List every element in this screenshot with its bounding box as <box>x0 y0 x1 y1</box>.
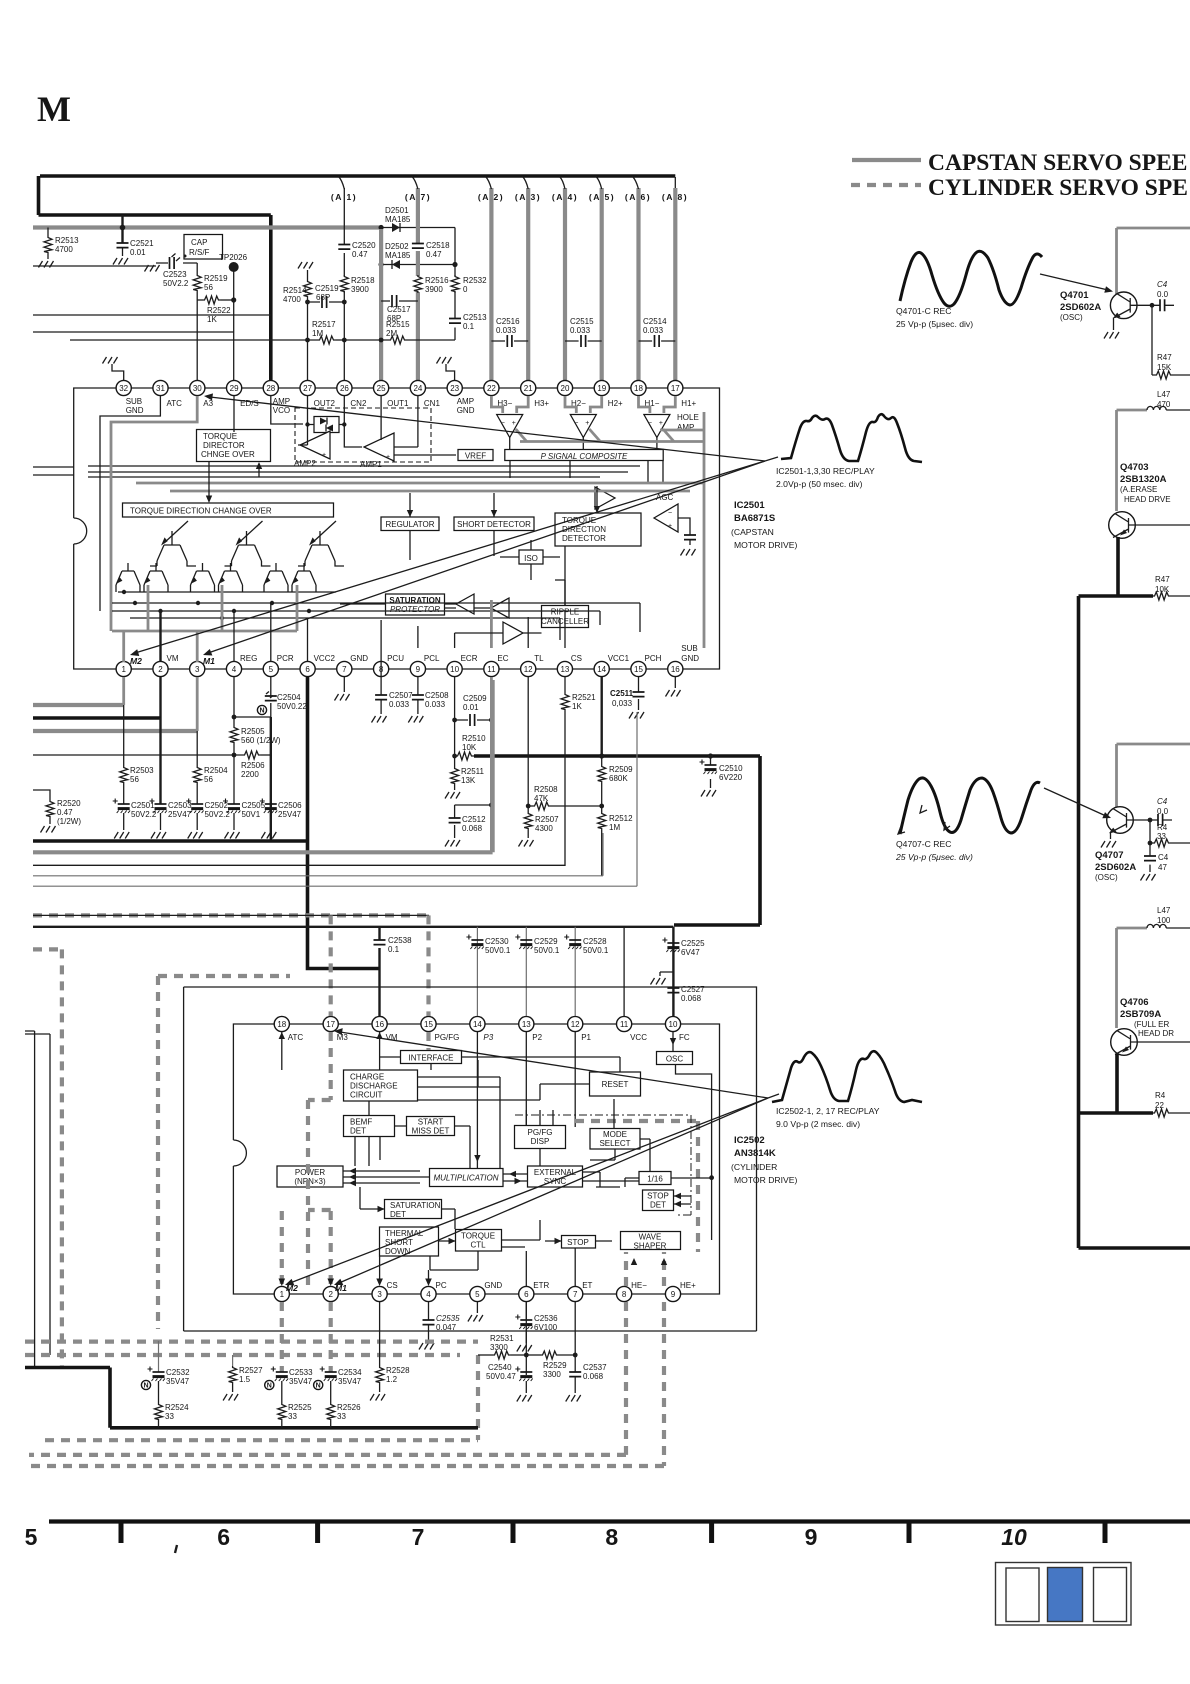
wire R2519 to pin30 <box>196 292 198 381</box>
svg-text:32: 32 <box>119 384 128 393</box>
svg-text:SHAPER: SHAPER <box>634 1242 667 1251</box>
ground pin16 <box>674 677 676 688</box>
capacitor C2530 <box>476 927 478 1016</box>
svg-text:10: 10 <box>450 665 459 674</box>
box CHARGE DISCHARGE CIRCUIT <box>344 1070 418 1101</box>
svg-text:29: 29 <box>230 384 239 393</box>
wire pins into amps <box>271 395 418 447</box>
svg-text:ET: ET <box>582 1281 592 1290</box>
svg-text:2: 2 <box>158 665 163 674</box>
pin 29 IC2501 <box>227 380 259 408</box>
svg-text:10: 10 <box>1001 1524 1027 1550</box>
right rail horizontal y596 <box>1079 594 1154 598</box>
pin 12 IC2501 bottom <box>521 654 544 677</box>
svg-text:C2520: C2520 <box>352 241 376 250</box>
svg-text:25V47: 25V47 <box>168 810 192 819</box>
gray inner bus <box>112 630 297 633</box>
svg-text:R4: R4 <box>1155 1091 1166 1100</box>
svg-text:STOP: STOP <box>567 1238 589 1247</box>
svg-text:25 Vp-p (5μsec. div): 25 Vp-p (5μsec. div) <box>895 852 973 862</box>
svg-text:(A 1): (A 1) <box>331 192 357 202</box>
svg-text:R/S/F: R/S/F <box>189 248 210 257</box>
svg-text:2SB709A: 2SB709A <box>1120 1009 1161 1020</box>
capacitor C2502 <box>186 799 203 814</box>
wire stop det arrows <box>674 1196 691 1204</box>
resistor R2526 <box>330 1381 332 1403</box>
wire external sync right <box>583 1172 640 1187</box>
capacitor C2507 <box>380 648 382 714</box>
wire pin2 drop thick <box>159 677 161 718</box>
svg-text:C2535: C2535 <box>436 1314 460 1323</box>
svg-text:R2529: R2529 <box>543 1361 567 1370</box>
box START MISS DET <box>407 1117 455 1136</box>
svg-text:SYNC: SYNC <box>544 1177 566 1186</box>
capacitor C2512 <box>455 805 492 838</box>
capacitor C2532 <box>158 1341 160 1372</box>
bus y865 to pin13 <box>33 864 565 866</box>
capacitor C2536 <box>525 1302 527 1343</box>
gray shielded bus top-left <box>33 225 381 229</box>
gray dashed bus y1355 <box>25 1353 460 1357</box>
wire A1 vertical to pin26 <box>343 188 345 381</box>
footer square 3 <box>1094 1568 1127 1622</box>
svg-text:R2508: R2508 <box>534 785 558 794</box>
capacitor C2503 <box>159 718 161 804</box>
hook A7 <box>412 177 418 190</box>
resistor R2503 <box>123 705 125 766</box>
svg-text:CYLINDER SERVO SPE: CYLINDER SERVO SPE <box>928 175 1188 201</box>
resistor R2518 <box>340 275 348 293</box>
wire second black rail to pin28 <box>39 213 271 217</box>
pin 28 IC2501 <box>263 380 290 415</box>
gray mesh drops <box>148 585 297 631</box>
pin 2 IC2501 bottom <box>153 654 179 677</box>
svg-text:9.0 Vp-p (2 msec. div): 9.0 Vp-p (2 msec. div) <box>776 1119 860 1129</box>
capacitor C2510 <box>708 753 713 758</box>
pin 16 IC2502 top <box>372 1016 398 1042</box>
svg-text:C2511: C2511 <box>610 689 634 698</box>
svg-text:MA185: MA185 <box>385 251 411 260</box>
svg-text:6: 6 <box>305 665 310 674</box>
wire saturation det link <box>360 1187 455 1229</box>
wire drops to boxes <box>410 486 597 517</box>
svg-text:HEAD DR: HEAD DR <box>1138 1029 1174 1038</box>
pin 17 IC2501 <box>668 380 697 408</box>
resistor R2508 bridge <box>526 804 531 809</box>
svg-text:50V2.2: 50V2.2 <box>131 810 157 819</box>
wire torque ctl links <box>430 1220 540 1270</box>
wire top rail <box>40 174 675 178</box>
svg-text:R2504: R2504 <box>204 766 228 775</box>
pin 6 IC2502 bottom <box>519 1281 550 1302</box>
svg-text:2.0Vp-p (50 msec. div): 2.0Vp-p (50 msec. div) <box>776 479 863 489</box>
svg-text:R2521: R2521 <box>572 693 596 702</box>
svg-text:9: 9 <box>805 1524 818 1550</box>
gray dashed pin15 feed <box>426 915 430 1016</box>
box STOP DET <box>643 1190 674 1211</box>
svg-text:R2514: R2514 <box>283 286 307 295</box>
svg-text:1: 1 <box>280 1290 285 1299</box>
wire pin31 inner path <box>100 396 160 611</box>
svg-text:VCC: VCC <box>630 1033 647 1042</box>
main right rail vertical <box>1077 596 1081 1248</box>
svg-text:C2517: C2517 <box>387 305 411 314</box>
svg-text:R47: R47 <box>1157 353 1172 362</box>
capacitor C2525 <box>662 938 679 953</box>
svg-text:DIRECTOR: DIRECTOR <box>203 441 245 450</box>
svg-text:50V0.1: 50V0.1 <box>583 946 609 955</box>
resistor R2521 <box>564 677 566 693</box>
svg-text:R2513: R2513 <box>55 236 79 245</box>
svg-text:56: 56 <box>204 283 213 292</box>
svg-text:C2533: C2533 <box>289 1368 313 1377</box>
resistor R2517 <box>318 336 336 344</box>
capacitor C4 47 <box>1149 843 1151 872</box>
svg-text:4300: 4300 <box>535 824 553 833</box>
gray shielded A3 vertical <box>526 188 530 381</box>
svg-text:18: 18 <box>277 1020 286 1029</box>
op-amp triangle B <box>491 598 509 618</box>
svg-text:PCH: PCH <box>645 654 662 663</box>
svg-text:2SB1320A: 2SB1320A <box>1120 474 1167 485</box>
gray dashed pin8 riser to wave shaper <box>624 1252 628 1286</box>
svg-text:Q4707-C REC: Q4707-C REC <box>896 839 951 849</box>
svg-text:−: − <box>501 420 505 427</box>
pin 21 IC2501 <box>521 380 550 408</box>
pin 5 IC2501 bottom <box>263 654 294 677</box>
svg-text:4: 4 <box>232 665 237 674</box>
svg-text:7: 7 <box>412 1524 425 1550</box>
svg-text:C2521: C2521 <box>130 239 154 248</box>
svg-text:+: + <box>585 420 589 427</box>
capacitor C2537 <box>569 1372 581 1377</box>
mesh bus rows <box>112 592 640 640</box>
gray inner path left <box>111 396 197 631</box>
box MULTIPLICATION <box>430 1169 504 1187</box>
box P SIGNAL COMPOSITE <box>505 450 663 461</box>
pin 8 IC2502 bottom <box>617 1281 648 1302</box>
wire pin5 lower drop <box>270 717 272 841</box>
right rail horizontal y1113 <box>1079 1111 1154 1115</box>
pin 10 IC2502 top <box>665 1016 689 1042</box>
svg-text:R2527: R2527 <box>239 1366 263 1375</box>
svg-text:35V47: 35V47 <box>338 1377 362 1386</box>
svg-text:C2506: C2506 <box>278 801 302 810</box>
svg-text:(FULL ER: (FULL ER <box>1134 1020 1169 1029</box>
svg-text:SHORT DETECTOR: SHORT DETECTOR <box>457 520 531 529</box>
svg-text:C2507: C2507 <box>389 691 413 700</box>
svg-text:GND: GND <box>457 406 475 415</box>
svg-text:16: 16 <box>671 665 680 674</box>
svg-text:35V47: 35V47 <box>166 1377 190 1386</box>
svg-text:3300: 3300 <box>543 1370 561 1379</box>
svg-text:C2537: C2537 <box>583 1363 607 1372</box>
ground bracket above pin23 <box>446 364 455 380</box>
wire R2517 rail <box>70 339 318 341</box>
svg-text:P3: P3 <box>483 1033 493 1042</box>
svg-text:C2534: C2534 <box>338 1368 362 1377</box>
svg-text:SUB: SUB <box>681 644 697 653</box>
pin 10 IC2501 bottom <box>447 654 478 677</box>
svg-text:C2515: C2515 <box>570 317 594 326</box>
transistor Q4701 <box>1104 292 1152 339</box>
svg-text:6: 6 <box>217 1524 230 1550</box>
wire pin7 riser <box>574 1248 576 1286</box>
wire pin11 gray drop <box>490 677 493 852</box>
svg-text:3300: 3300 <box>490 1343 508 1352</box>
svg-text:R2505: R2505 <box>241 727 265 736</box>
iso wires <box>500 556 560 558</box>
svg-text:+: + <box>386 454 390 461</box>
op-amp AMP1 <box>364 433 394 461</box>
capacitor C2501 <box>113 799 130 814</box>
wire pin14 drop <box>476 1032 478 1168</box>
svg-text:IC2502-1, 2, 17 REC/PLAY: IC2502-1, 2, 17 REC/PLAY <box>776 1106 880 1116</box>
waveform Q4707 sine <box>900 778 1040 834</box>
box STOP <box>562 1236 596 1249</box>
svg-text:ISO: ISO <box>524 554 538 563</box>
svg-text:CAPSTAN SERVO SPEE: CAPSTAN SERVO SPEE <box>928 150 1187 176</box>
capacitor C2516 bridge <box>491 340 528 342</box>
svg-text:1: 1 <box>121 665 126 674</box>
svg-text:0.033: 0.033 <box>389 700 410 709</box>
svg-text:MISS DET: MISS DET <box>412 1127 450 1136</box>
black bus y718 <box>33 716 161 720</box>
svg-text:17: 17 <box>326 1020 335 1029</box>
svg-text:31: 31 <box>156 384 165 393</box>
op-amp IC2501 outline <box>61 388 720 669</box>
svg-text:0.068: 0.068 <box>681 994 702 1003</box>
ground bracket above pin32 <box>112 364 124 380</box>
gray dashed pin9 drop <box>29 1302 664 1466</box>
svg-text:0.033: 0.033 <box>496 326 517 335</box>
stray mark <box>175 1545 177 1553</box>
svg-text:5: 5 <box>475 1290 480 1299</box>
emitter drop Q4703 <box>1116 537 1120 596</box>
op-amp H3 head amp <box>491 396 528 450</box>
wire thermal to torque <box>439 1240 456 1242</box>
svg-text:DIRECTION: DIRECTION <box>562 525 606 534</box>
wire pin4 drop <box>233 677 235 726</box>
svg-text:680K: 680K <box>609 774 628 783</box>
svg-text:33: 33 <box>165 1412 174 1421</box>
bus y876 to pin14 <box>33 833 603 876</box>
svg-text:WAVE: WAVE <box>639 1233 662 1242</box>
gray rail to Q4701 <box>1117 228 1190 294</box>
box SATURATION PROTECTOR <box>386 594 445 615</box>
svg-text:C2540: C2540 <box>488 1363 512 1372</box>
svg-text:6V220: 6V220 <box>719 773 743 782</box>
svg-text:C2514: C2514 <box>643 317 667 326</box>
svg-text:470: 470 <box>1157 400 1171 409</box>
svg-text:13: 13 <box>522 1020 531 1029</box>
capacitor C2508 <box>417 677 419 714</box>
svg-text:7: 7 <box>342 665 347 674</box>
svg-text:C4: C4 <box>1157 280 1168 289</box>
svg-text:H2+: H2+ <box>608 399 623 408</box>
svg-text:30: 30 <box>193 384 202 393</box>
wire pin6 down <box>525 1302 527 1375</box>
bus y852 gray to pin11 <box>33 680 493 852</box>
svg-text:47: 47 <box>1158 863 1167 872</box>
wire pgfg disp links <box>526 1110 553 1166</box>
svg-text:C2530: C2530 <box>485 937 509 946</box>
svg-text:0.1: 0.1 <box>388 945 400 954</box>
svg-text:C2525: C2525 <box>681 939 705 948</box>
svg-text:−: − <box>668 510 672 517</box>
box POWER NPNx3 <box>277 1166 343 1187</box>
gray dashed pin17 drop <box>329 1032 333 1100</box>
capacitor C2504 with N <box>234 677 271 717</box>
svg-text:C2513: C2513 <box>463 313 487 322</box>
svg-text:PCU: PCU <box>387 654 404 663</box>
wire pin2 riser gray dashed <box>308 1210 331 1284</box>
wire pin12 drop <box>527 677 529 806</box>
arrow wave to Q4707 <box>1044 788 1106 816</box>
diode D2501 <box>392 223 400 232</box>
wire bemf det links <box>355 1101 407 1166</box>
svg-text:100: 100 <box>1157 916 1171 925</box>
svg-text:M: M <box>37 89 71 129</box>
pin 9 IC2501 bottom <box>410 654 440 677</box>
svg-text:(CYLINDER: (CYLINDER <box>731 1162 777 1172</box>
node D2502 left <box>379 262 384 267</box>
gray dashed inner right path <box>575 1121 698 1252</box>
pin 22 IC2501 <box>484 380 513 408</box>
thin rail y755 <box>33 754 243 756</box>
svg-text:SATURATION: SATURATION <box>390 1201 441 1210</box>
pin 16 IC2501 bottom <box>668 644 700 677</box>
svg-text:C2509: C2509 <box>463 694 487 703</box>
ruler tick 5 <box>907 1521 912 1543</box>
left loop corner a <box>25 1031 35 1367</box>
wire chngeover out <box>208 462 210 499</box>
svg-text:MOTOR DRIVE): MOTOR DRIVE) <box>734 1175 797 1185</box>
svg-text:+: + <box>512 420 516 427</box>
svg-text:BA6871S: BA6871S <box>734 513 775 524</box>
svg-text:C2508: C2508 <box>425 691 449 700</box>
svg-text:R2511: R2511 <box>461 767 485 776</box>
svg-text:1K: 1K <box>207 315 217 324</box>
box OSC <box>657 1052 693 1065</box>
svg-text:0.068: 0.068 <box>583 1372 604 1381</box>
outer gray dashed boundary left <box>156 976 160 1329</box>
node dots mesh <box>122 590 311 620</box>
svg-text:9: 9 <box>416 665 421 674</box>
svg-text:TL: TL <box>534 654 544 663</box>
svg-text:CTL: CTL <box>470 1241 486 1250</box>
svg-text:15K: 15K <box>1157 363 1172 372</box>
box TORQUE CTL <box>456 1230 502 1252</box>
svg-text:5: 5 <box>25 1524 38 1550</box>
svg-text:24: 24 <box>413 384 422 393</box>
bottom ruler line <box>49 1519 1190 1523</box>
svg-text:PG/FG: PG/FG <box>435 1033 460 1042</box>
svg-text:20: 20 <box>561 384 570 393</box>
svg-text:560 (1/2W): 560 (1/2W) <box>241 736 281 745</box>
gray dashed left drop <box>33 949 62 1367</box>
capacitor C2535 <box>428 1302 430 1341</box>
box THERMAL SHORT DOWN <box>380 1227 439 1256</box>
thick elbow right of rail756 <box>674 756 760 925</box>
capacitor C2534 <box>329 1302 333 1372</box>
gray dashed bus y1440 <box>45 1438 478 1442</box>
diode pair in amp box <box>314 417 339 433</box>
wire pin7 down <box>574 1302 576 1372</box>
svg-text:VCC1: VCC1 <box>608 654 630 663</box>
svg-text:R2512: R2512 <box>609 814 633 823</box>
ruler tick 6 <box>1103 1521 1108 1543</box>
svg-text:0,033: 0,033 <box>612 699 633 708</box>
svg-text:C4: C4 <box>1157 797 1168 806</box>
svg-text:1M: 1M <box>312 329 323 338</box>
svg-text:R2520: R2520 <box>57 799 81 808</box>
svg-text:VREF: VREF <box>465 452 486 461</box>
svg-text:26: 26 <box>340 384 349 393</box>
svg-text:C2504: C2504 <box>277 693 301 702</box>
pin 24 IC2501 <box>410 380 440 408</box>
box 1/16 <box>639 1172 671 1185</box>
gray shielded A6 vertical <box>636 188 640 381</box>
ruler tick 4 <box>709 1521 714 1543</box>
svg-text:−: − <box>574 420 578 427</box>
pin 9 IC2502 bottom <box>665 1281 696 1302</box>
svg-text:C2518: C2518 <box>426 241 450 250</box>
ground pin7 <box>343 677 345 692</box>
svg-text:CAP: CAP <box>191 238 207 247</box>
svg-text:R2522: R2522 <box>207 306 231 315</box>
svg-text:0.47: 0.47 <box>57 808 73 817</box>
svg-text:−: − <box>648 420 652 427</box>
capacitor C2519 <box>308 301 345 303</box>
svg-text:13K: 13K <box>461 776 476 785</box>
svg-text:CS: CS <box>571 654 582 663</box>
svg-text:ETR: ETR <box>533 1281 549 1290</box>
svg-text:Q4701-C REC: Q4701-C REC <box>896 306 951 316</box>
svg-text:1K: 1K <box>572 702 582 711</box>
connector saturation to mesh <box>340 604 542 633</box>
svg-text:6V100: 6V100 <box>534 1323 558 1332</box>
capacitor C2509 <box>455 677 492 720</box>
resistor R2527 <box>232 1355 234 1366</box>
svg-text:DISP: DISP <box>531 1137 550 1146</box>
svg-text:R47: R47 <box>1155 575 1170 584</box>
svg-text:STOP: STOP <box>647 1192 669 1201</box>
svg-text:3900: 3900 <box>351 285 369 294</box>
svg-text:22: 22 <box>487 384 496 393</box>
resistor R2525 <box>281 1381 283 1403</box>
capacitor C2523 with ground <box>156 262 197 264</box>
pin 26 IC2501 <box>337 380 367 408</box>
svg-text:22: 22 <box>1155 1101 1164 1110</box>
svg-text:33: 33 <box>288 1412 297 1421</box>
thick bus y841 <box>33 839 308 843</box>
op-amp triangle A <box>456 594 474 614</box>
gray bus y731 <box>33 729 197 733</box>
svg-text:ATC: ATC <box>288 1033 304 1042</box>
svg-text:R2532: R2532 <box>463 276 487 285</box>
svg-text:Q4701: Q4701 <box>1060 290 1089 301</box>
ruler tick 1 <box>119 1521 124 1543</box>
svg-text:2200: 2200 <box>241 770 259 779</box>
waveform Q4701 sine <box>900 251 1042 306</box>
pin 8 IC2501 bottom <box>374 654 405 677</box>
svg-text:25: 25 <box>377 384 386 393</box>
svg-text:ATC: ATC <box>167 399 183 408</box>
resistor R2507 with ground <box>524 812 532 830</box>
box MODE SELECT <box>590 1129 640 1150</box>
wire regulator/shortdet drops <box>410 531 565 606</box>
